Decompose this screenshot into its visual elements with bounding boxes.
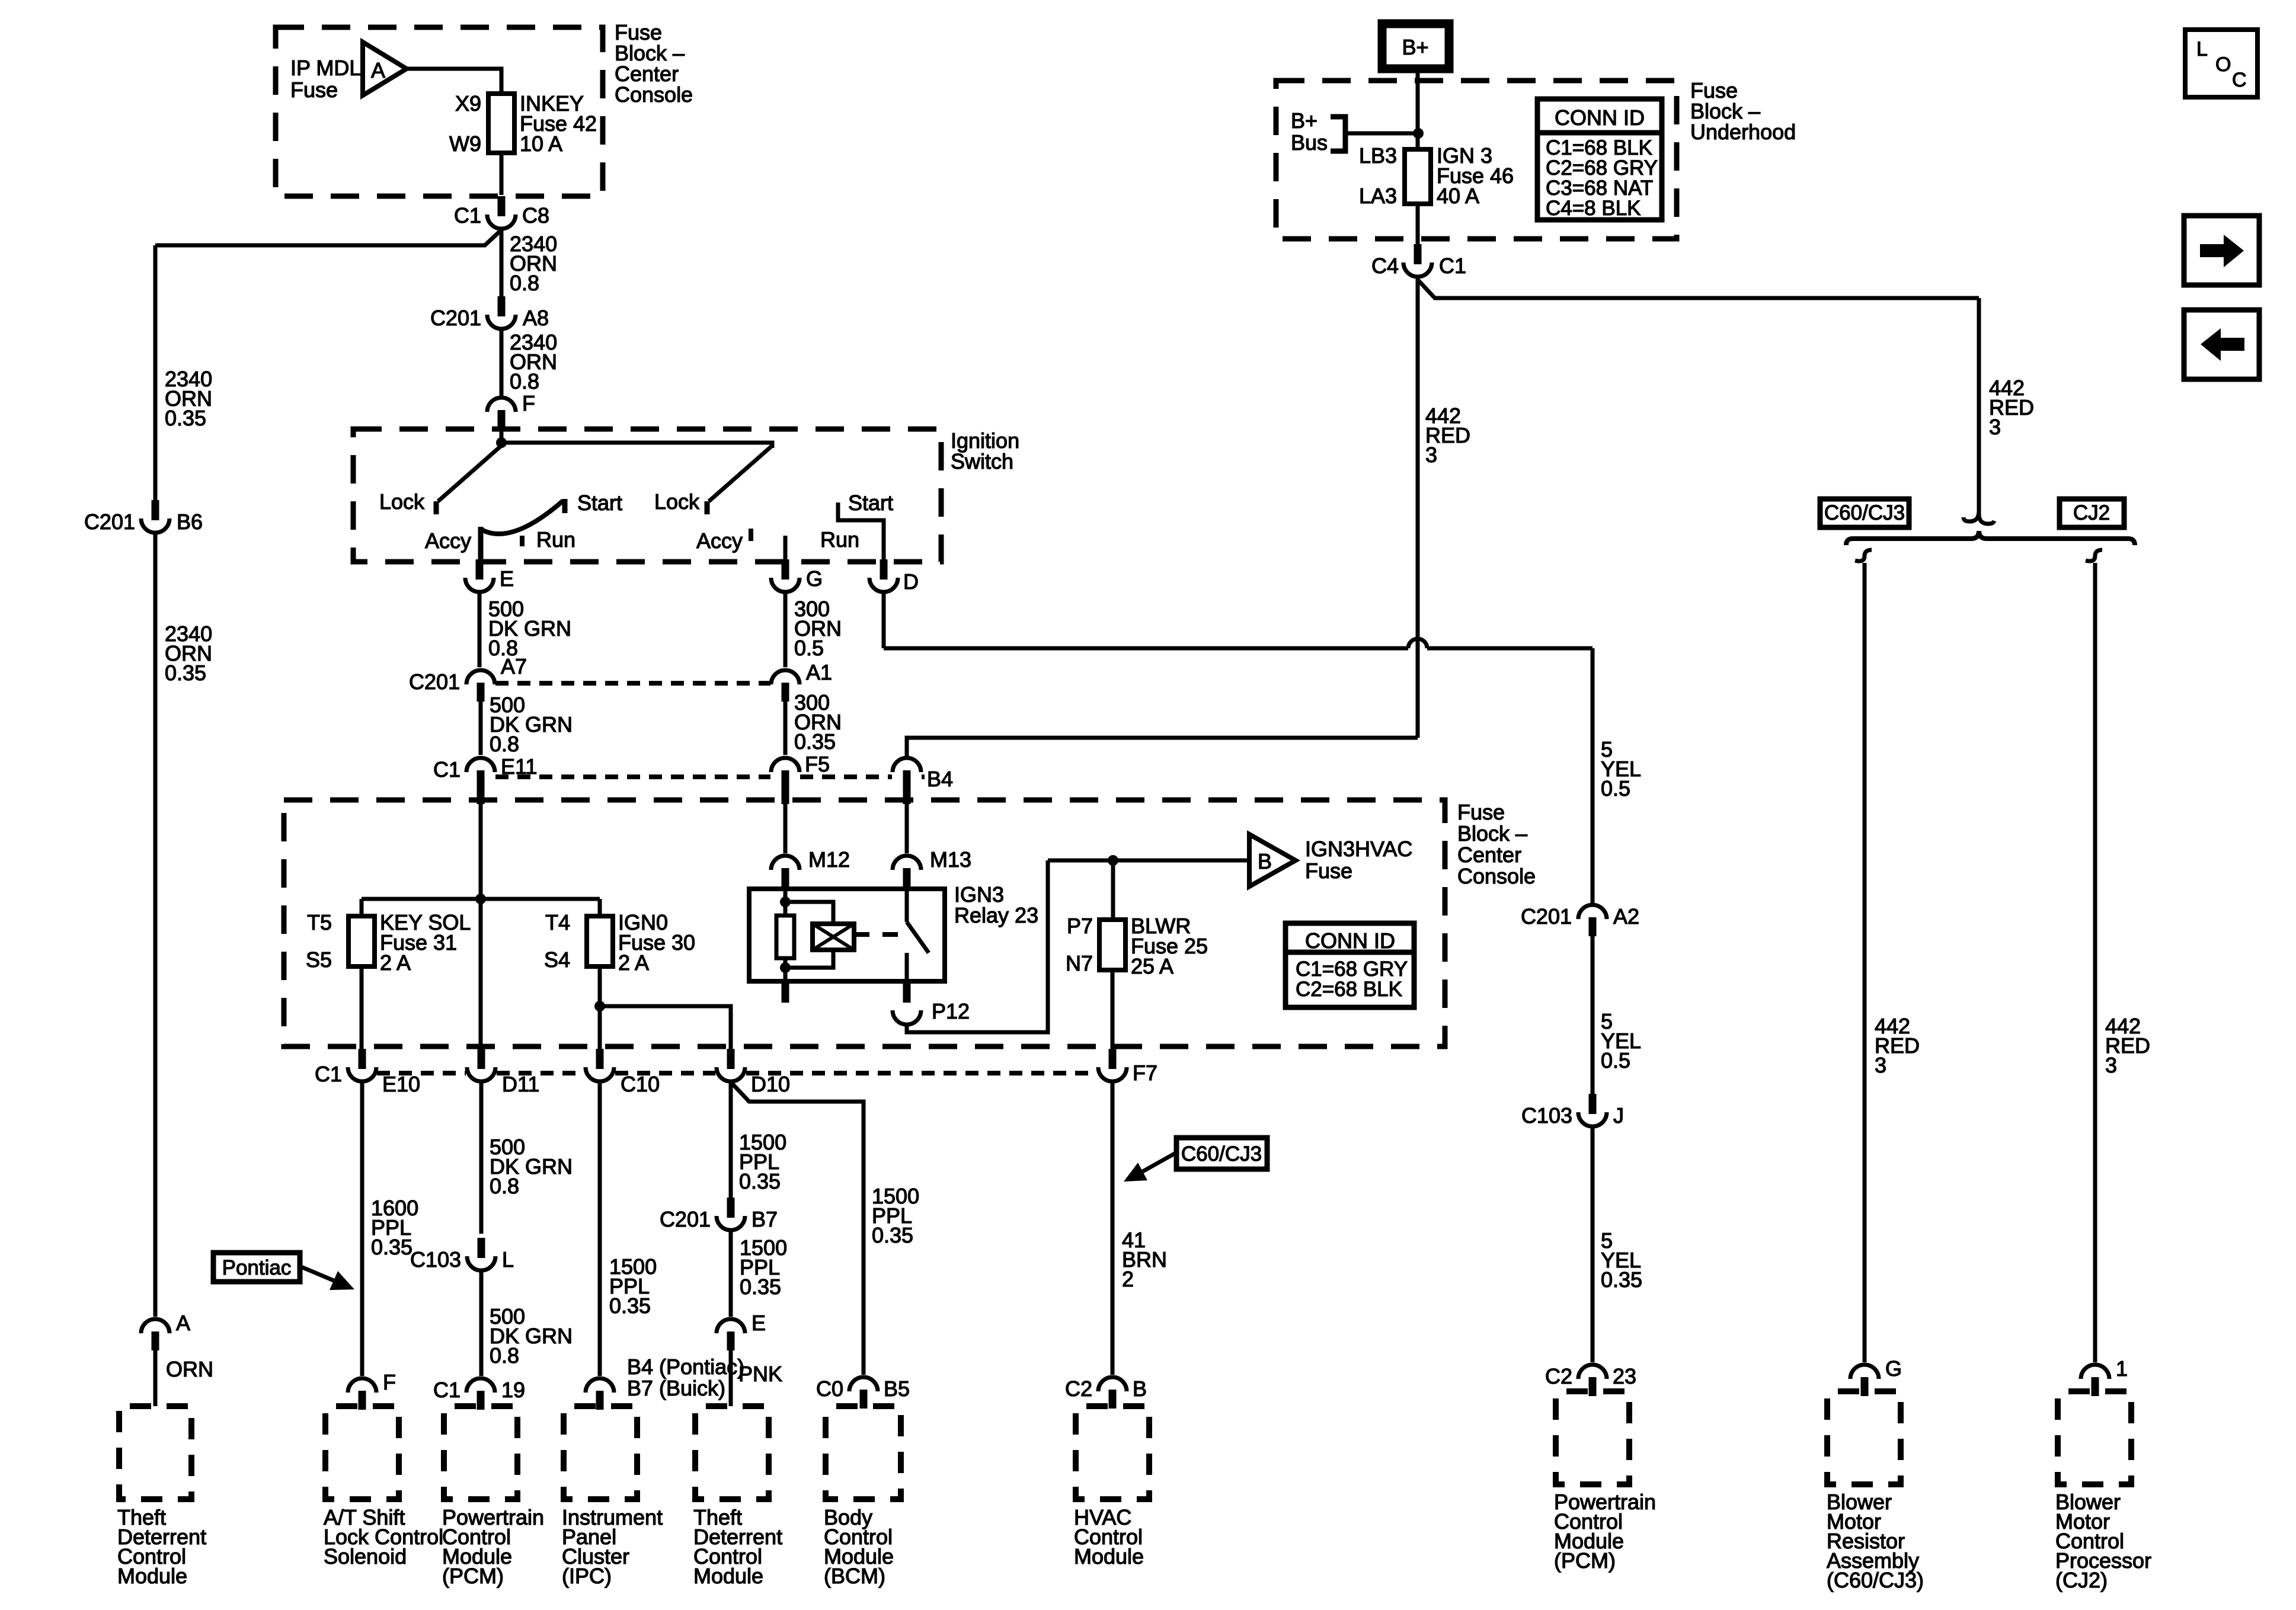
wire D10 to C201-B7 bbox=[729, 1083, 733, 1199]
IP MDL Fuse triangle A bbox=[363, 42, 407, 95]
theft deterrent control module box (right) bbox=[695, 1406, 769, 1499]
wire IGN0 junction to C10 bbox=[598, 1006, 602, 1050]
fuse block - center console (top) dashed box bbox=[276, 27, 603, 196]
label C1 (E11) bbox=[433, 757, 461, 782]
wire IGN3 fuse to C4/C1 bbox=[1416, 204, 1420, 244]
HVAC control module box bbox=[1076, 1406, 1149, 1499]
wire B+ bus to junction bbox=[1345, 132, 1418, 136]
svg-text:Accy: Accy bbox=[425, 529, 471, 553]
connector M13 bbox=[893, 856, 921, 887]
label Powertrain Control Module (PCM) right bbox=[1554, 1490, 1656, 1573]
svg-text:A7: A7 bbox=[501, 654, 527, 678]
label A8 bbox=[523, 306, 549, 330]
connector C201/A8 bbox=[487, 296, 516, 329]
junction B+ bus bbox=[1413, 128, 1424, 139]
dotted connector line row3 bbox=[377, 1071, 466, 1076]
dotted connector line C201 A7-A1 bbox=[495, 681, 770, 686]
svg-text:0.8: 0.8 bbox=[490, 1343, 519, 1368]
Lock terminal 1 bbox=[434, 501, 439, 514]
fuse F42 INKEY bbox=[488, 94, 514, 153]
connector D bbox=[869, 559, 898, 592]
wire IGN0 branch to D10 bbox=[600, 1006, 731, 1050]
svg-text:L: L bbox=[502, 1247, 514, 1272]
wire label 41 BRN 2 bbox=[1122, 1228, 1167, 1291]
label Start 2 bbox=[848, 491, 893, 515]
label M12 bbox=[808, 847, 850, 872]
svg-text:B: B bbox=[1258, 849, 1272, 873]
label KEY SOL Fuse 31 2 A bbox=[380, 910, 471, 975]
wire label 1500 PPL 0.35 (IPC) bbox=[609, 1254, 657, 1318]
svg-text:C2: C2 bbox=[1065, 1377, 1092, 1401]
wire label 1500 PPL 0.35 (BCM) bbox=[872, 1184, 919, 1247]
label HVAC Control Module bbox=[1074, 1505, 1144, 1569]
svg-text:C4=8 BLK: C4=8 BLK bbox=[1546, 197, 1641, 220]
Accy terminal 2 tick bbox=[749, 529, 753, 541]
junction fuse feed bbox=[475, 894, 486, 904]
label F (connector) bbox=[522, 391, 535, 415]
svg-text:G: G bbox=[1885, 1356, 1902, 1381]
wire E to C201-A7 bbox=[478, 594, 482, 667]
svg-text:CJ2: CJ2 bbox=[2073, 501, 2110, 524]
connector G (blower resistor) bbox=[1850, 1365, 1879, 1396]
label T5 bbox=[307, 910, 332, 934]
svg-text:0.8: 0.8 bbox=[510, 369, 539, 393]
svg-text:C1: C1 bbox=[454, 203, 481, 228]
svg-text:G: G bbox=[806, 566, 823, 591]
label C2 (PCM) bbox=[1545, 1364, 1572, 1388]
svg-text:(BCM): (BCM) bbox=[824, 1564, 885, 1588]
svg-text:Module: Module bbox=[1074, 1544, 1144, 1569]
label T4 bbox=[545, 910, 570, 934]
fuse F46 IGN 3 bbox=[1405, 149, 1431, 204]
arrow right box bbox=[2184, 216, 2259, 285]
label Theft Deterrent Control Module (right) bbox=[693, 1505, 782, 1588]
label P7 bbox=[1067, 914, 1093, 938]
F5 stub extension bbox=[782, 788, 789, 804]
Lock terminal 2 bbox=[705, 501, 710, 514]
svg-text:F: F bbox=[522, 391, 535, 415]
connector D10 bbox=[717, 1049, 745, 1081]
rotation arc Accy-Run-Start with arrow bbox=[481, 499, 565, 534]
svg-text:C201: C201 bbox=[430, 306, 481, 330]
connector C0/B5 bbox=[849, 1377, 878, 1409]
label S5 bbox=[306, 948, 332, 972]
wire F into ignition switch box bbox=[500, 429, 504, 443]
svg-text:C: C bbox=[2232, 69, 2247, 91]
svg-text:B4 (Pontiac): B4 (Pontiac) bbox=[627, 1355, 744, 1379]
wire B4 to M13 bbox=[905, 789, 909, 853]
instrument panel cluster box bbox=[564, 1406, 637, 1499]
wire label 1500 PPL 0.35 (theft lower) bbox=[740, 1235, 787, 1299]
svg-text:N7: N7 bbox=[1066, 951, 1093, 975]
wire label 5 YEL 0.35 bbox=[1601, 1228, 1642, 1292]
wire label 442 RED 3 (far right) bbox=[1989, 376, 2034, 439]
svg-text:Fuse: Fuse bbox=[1305, 859, 1352, 883]
label A7 bbox=[501, 654, 527, 678]
label 19 bbox=[501, 1378, 525, 1402]
svg-text:B5: B5 bbox=[884, 1377, 910, 1401]
svg-text:T5: T5 bbox=[307, 910, 332, 934]
svg-text:S5: S5 bbox=[306, 948, 332, 972]
svg-text:E: E bbox=[500, 566, 514, 591]
svg-text:W9: W9 bbox=[449, 132, 481, 156]
connector C201/A7 bbox=[466, 670, 495, 702]
relay left leg to box bottom bbox=[784, 958, 788, 981]
label 1 (blower) bbox=[2116, 1356, 2128, 1381]
label Lock 1 bbox=[379, 489, 425, 514]
relay resistor bottom junction bbox=[780, 962, 791, 973]
label B (HVAC) bbox=[1133, 1377, 1147, 1401]
wire label 500 DK GRN 0.8 (below A7) bbox=[490, 693, 573, 756]
wire BLWR fuse to F7 bbox=[1111, 970, 1115, 1050]
wire junction to BLWR fuse bbox=[1111, 860, 1115, 922]
fuse block - underhood dashed box bbox=[1276, 81, 1677, 239]
svg-text:2 A: 2 A bbox=[618, 950, 649, 975]
svg-text:19: 19 bbox=[501, 1378, 525, 1402]
label C103 (J) bbox=[1521, 1103, 1572, 1128]
label Fuse Block - Center Console (top) bbox=[615, 20, 693, 107]
label Instrument Panel Cluster (IPC) bbox=[562, 1505, 663, 1588]
relay switch blade bbox=[907, 922, 929, 953]
bus wire to fuses bbox=[362, 897, 600, 901]
label Lock 2 bbox=[654, 489, 700, 514]
connector C201/B6 bbox=[141, 500, 170, 533]
wire C10 to B4/B7 bbox=[598, 1083, 602, 1376]
LOC reference box bbox=[2185, 30, 2257, 97]
label C0 bbox=[816, 1377, 843, 1401]
svg-text:C10: C10 bbox=[621, 1072, 660, 1096]
label C103 (L) bbox=[410, 1247, 461, 1272]
connector B4/B7 (IPC) bbox=[586, 1378, 614, 1410]
wire label 442 RED 3 (blower resistor) bbox=[1875, 1014, 1920, 1077]
IGN3HVAC Fuse triangle B bbox=[1249, 834, 1296, 886]
svg-text:(C60/CJ3): (C60/CJ3) bbox=[1827, 1568, 1924, 1592]
label L bbox=[502, 1247, 514, 1272]
connector C201/B7 (theft) bbox=[717, 1198, 745, 1230]
wire label PNK bbox=[738, 1362, 782, 1386]
label LB3 bbox=[1359, 143, 1397, 168]
label F (solenoid) bbox=[383, 1370, 396, 1394]
svg-text:0.35: 0.35 bbox=[740, 1275, 781, 1299]
label E11 bbox=[501, 754, 537, 779]
svg-text:0.35: 0.35 bbox=[1601, 1267, 1642, 1292]
connector D11 bbox=[467, 1049, 495, 1081]
svg-text:CONN ID: CONN ID bbox=[1555, 105, 1645, 130]
wire D10 branch to BCM (diagonal) bbox=[731, 1082, 864, 1375]
CONN ID table (center console) bbox=[1285, 923, 1414, 1007]
label D10 bbox=[751, 1072, 790, 1096]
label F5 bbox=[805, 752, 830, 776]
svg-text:F: F bbox=[383, 1370, 396, 1394]
svg-text:3: 3 bbox=[1425, 443, 1437, 467]
svg-text:Start: Start bbox=[577, 491, 622, 515]
svg-text:0.8: 0.8 bbox=[510, 271, 539, 295]
powertrain control module (PCM) box right bbox=[1556, 1391, 1629, 1484]
CJ2 tag box (top) bbox=[2060, 499, 2124, 527]
connector C10 bbox=[586, 1049, 614, 1081]
label B4 (Pontiac) B7 (Buick) bbox=[627, 1355, 744, 1400]
label Blower Motor Control Processor (CJ2) bbox=[2055, 1490, 2151, 1592]
svg-text:C1: C1 bbox=[315, 1062, 342, 1086]
svg-text:Block –: Block – bbox=[1457, 821, 1527, 846]
IGN3HVAC feed wire bbox=[1048, 859, 1249, 863]
label Run 1 bbox=[536, 527, 575, 552]
relay left leg stub below box bbox=[782, 981, 789, 1003]
wire E11 to junction bbox=[479, 789, 483, 899]
theft deterrent control module box (left) bbox=[119, 1406, 191, 1499]
label 23 bbox=[1613, 1364, 1636, 1388]
svg-text:B+: B+ bbox=[1291, 108, 1318, 133]
label IGN0 Fuse 30 2 A bbox=[618, 910, 695, 975]
svg-text:Solenoid: Solenoid bbox=[324, 1544, 407, 1569]
label Blower Motor Resistor Assembly (C60/CJ3) bbox=[1827, 1490, 1924, 1592]
svg-text:C201: C201 bbox=[84, 510, 135, 534]
wire down to KEY SOL fuse bbox=[360, 899, 364, 916]
wire label ORN bbox=[166, 1357, 213, 1381]
wire B7 to E bbox=[729, 1232, 733, 1317]
label C201 (B7 theft) bbox=[660, 1207, 711, 1231]
Pontiac arrow bbox=[300, 1266, 354, 1290]
svg-text:A: A bbox=[176, 1311, 190, 1335]
wire Accy1 to connector E bbox=[478, 527, 484, 562]
wire label 300 ORN 0.35 bbox=[794, 690, 842, 754]
svg-text:C60/CJ3: C60/CJ3 bbox=[1824, 501, 1905, 524]
wire F into solenoid box bbox=[360, 1406, 364, 1410]
svg-text:0.35: 0.35 bbox=[165, 406, 206, 430]
wire left branch down to C201-B6 bbox=[154, 245, 158, 501]
svg-text:LA3: LA3 bbox=[1359, 184, 1397, 208]
wire J to C2-23 bbox=[1591, 1128, 1595, 1362]
svg-text:C103: C103 bbox=[410, 1247, 461, 1272]
svg-text:E10: E10 bbox=[382, 1072, 420, 1096]
label C2 (HVAC) bbox=[1065, 1377, 1092, 1401]
relay coil (box with X) bbox=[813, 924, 854, 950]
svg-text:C1: C1 bbox=[433, 757, 461, 782]
wire A into theft module box bbox=[154, 1350, 158, 1406]
label M13 bbox=[930, 847, 971, 872]
label A1 bbox=[806, 660, 832, 684]
fuse F25 BLWR bbox=[1099, 920, 1125, 970]
svg-text:23: 23 bbox=[1613, 1364, 1636, 1388]
svg-text:J: J bbox=[1613, 1103, 1624, 1128]
Run terminal 1 tick bbox=[520, 536, 525, 546]
fuse F31 KEY SOL bbox=[348, 916, 375, 966]
wire M12 column from center bbox=[479, 899, 483, 1050]
connector F5 bbox=[771, 758, 800, 789]
wire E10 to F connector bbox=[360, 1083, 364, 1376]
svg-text:Start: Start bbox=[848, 491, 893, 515]
B4 stub extension bbox=[903, 788, 911, 804]
wire hook blower control bbox=[2086, 550, 2102, 561]
wire label 5 YEL 0.5 (upper) bbox=[1601, 737, 1641, 801]
relay resistor bbox=[776, 916, 794, 958]
label E (theft) bbox=[752, 1311, 766, 1335]
connector C103/L bbox=[467, 1238, 495, 1270]
relay wire M12 to resistor bbox=[784, 889, 788, 916]
svg-text:3: 3 bbox=[2105, 1053, 2117, 1077]
wire D11 to C103-L bbox=[479, 1083, 484, 1234]
svg-text:Fuse: Fuse bbox=[290, 78, 338, 102]
blower motor resistor assembly box bbox=[1827, 1391, 1901, 1484]
wire B6 down to connector A bbox=[154, 534, 158, 1317]
label E (connector) bbox=[500, 566, 514, 591]
svg-text:25 A: 25 A bbox=[1131, 954, 1173, 978]
svg-text:0.8: 0.8 bbox=[490, 1174, 519, 1198]
connector F (ignition switch) bbox=[487, 398, 516, 429]
label D (connector) bbox=[903, 569, 919, 594]
svg-text:10 A: 10 A bbox=[520, 132, 562, 156]
C60/CJ3 arrow bbox=[1124, 1153, 1176, 1182]
relay coil to switch dashed link bbox=[854, 932, 907, 937]
connector 1 (blower control) bbox=[2081, 1365, 2109, 1396]
wire KEY SOL fuse to E10 bbox=[360, 966, 364, 1050]
svg-text:Lock: Lock bbox=[654, 489, 700, 514]
wire label 442 RED 3 (blower control) bbox=[2105, 1014, 2150, 1077]
label Fuse Block - Center Console (big) bbox=[1457, 800, 1536, 888]
svg-text:M12: M12 bbox=[808, 847, 850, 872]
label Accy 1 bbox=[425, 529, 471, 553]
wire triangle A to INKEY fuse bbox=[407, 69, 501, 94]
svg-text:M13: M13 bbox=[930, 847, 971, 872]
svg-text:C4: C4 bbox=[1371, 254, 1399, 278]
wire branch to theft deterrent (diagonal + horizontal) bbox=[155, 230, 501, 245]
svg-text:C201: C201 bbox=[409, 670, 460, 694]
svg-text:2: 2 bbox=[1122, 1267, 1134, 1291]
svg-text:Center: Center bbox=[1457, 843, 1521, 867]
wire IGN0 fuse to junction bbox=[598, 966, 602, 1006]
connector C1/C8 bbox=[487, 196, 516, 229]
wire hook blower resistor bbox=[1855, 550, 1872, 561]
label C201 (B6) bbox=[84, 510, 135, 534]
horizontal wire D to right (left of hop) bbox=[884, 646, 1408, 651]
svg-text:C2=68 BLK: C2=68 BLK bbox=[1296, 978, 1402, 1001]
B+ Bus bracket bbox=[1331, 117, 1345, 151]
wire label 5 YEL 0.5 (mid) bbox=[1601, 1009, 1641, 1073]
wire label 442 RED 3 (main) bbox=[1425, 404, 1470, 467]
svg-text:C201: C201 bbox=[1521, 904, 1572, 929]
svg-text:C8: C8 bbox=[522, 203, 549, 228]
svg-text:B7 (Buick): B7 (Buick) bbox=[627, 1376, 725, 1400]
label IGN3 Relay 23 bbox=[954, 882, 1038, 927]
label Body Control Module (BCM) bbox=[824, 1505, 894, 1588]
label C1 (19) bbox=[433, 1378, 461, 1402]
IGN3 relay 23 box bbox=[749, 889, 945, 981]
svg-text:A1: A1 bbox=[806, 660, 832, 684]
wire ignition feed to switch 2 bbox=[501, 443, 772, 448]
svg-text:Pontiac: Pontiac bbox=[222, 1256, 292, 1279]
wire Run2 to connector G bbox=[784, 536, 788, 562]
wire blower resistor column bbox=[1863, 563, 1867, 1362]
svg-text:40 A: 40 A bbox=[1437, 184, 1479, 208]
svg-text:(IPC): (IPC) bbox=[562, 1564, 612, 1588]
wire label 300 ORN 0.5 bbox=[794, 597, 842, 660]
relay coil feed junction top bbox=[780, 897, 791, 907]
wire label 2340 ORN 0.35 (upper left) bbox=[165, 367, 212, 430]
svg-text:Switch: Switch bbox=[951, 449, 1013, 473]
wire blower control column bbox=[2093, 563, 2097, 1362]
wire end hook above brace bbox=[1964, 511, 1994, 524]
wire label 2340 ORN 0.35 (lower left) bbox=[165, 622, 212, 685]
svg-text:0.5: 0.5 bbox=[794, 636, 824, 660]
label C1 (underhood) bbox=[1439, 254, 1466, 278]
C60/CJ3 tag box (HVAC) bbox=[1176, 1138, 1267, 1169]
wire A8 to F bbox=[500, 331, 504, 396]
label B+ Bus bbox=[1291, 108, 1328, 155]
label E10 bbox=[382, 1072, 420, 1096]
relay switch fixed contact top bbox=[905, 889, 909, 922]
svg-text:C201: C201 bbox=[660, 1207, 711, 1231]
wire C4/C1 down main 442 RED bbox=[1416, 279, 1420, 738]
svg-text:ORN: ORN bbox=[166, 1357, 213, 1381]
label B7 (theft) bbox=[752, 1207, 778, 1231]
label IGN 3 Fuse 46 40 A bbox=[1437, 143, 1514, 208]
svg-text:3: 3 bbox=[1875, 1053, 1886, 1077]
junction IGN0 branch bbox=[594, 1001, 605, 1012]
connector C1/19 bbox=[466, 1378, 495, 1410]
svg-text:0.35: 0.35 bbox=[794, 729, 836, 754]
svg-text:Lock: Lock bbox=[379, 489, 425, 514]
svg-text:Underhood: Underhood bbox=[1690, 120, 1796, 144]
wire label 500 DK GRN 0.8 (PCM upper) bbox=[490, 1135, 573, 1198]
label IP MDL Fuse bbox=[290, 56, 361, 102]
svg-text:C1: C1 bbox=[1439, 254, 1466, 278]
svg-text:D11: D11 bbox=[502, 1072, 539, 1096]
label P12 bbox=[932, 999, 970, 1023]
connector G bbox=[771, 559, 800, 592]
relay coil bottom wire bbox=[785, 950, 833, 968]
wire A7 to C1-E11 bbox=[479, 702, 483, 755]
arrow left box bbox=[2184, 310, 2259, 379]
connector C103/J bbox=[1578, 1094, 1607, 1126]
svg-text:Console: Console bbox=[615, 82, 693, 107]
svg-text:C0: C0 bbox=[816, 1377, 843, 1401]
svg-text:0.35: 0.35 bbox=[872, 1223, 913, 1247]
wire label 2340 ORN 0.8 (upper) bbox=[510, 232, 557, 295]
CONN ID rows (center console) bbox=[1296, 958, 1408, 1001]
svg-text:C103: C103 bbox=[1521, 1103, 1572, 1128]
junction ignition feed bbox=[496, 437, 507, 448]
horizontal wire D to right (right of hop) bbox=[1427, 646, 1593, 651]
wire 442 to B4 (left turn) bbox=[907, 738, 1418, 756]
svg-text:Run: Run bbox=[820, 527, 859, 552]
label Theft Deterrent Control Module (left) bbox=[117, 1505, 206, 1588]
connector C4/C1 bbox=[1403, 244, 1432, 277]
svg-text:C60/CJ3: C60/CJ3 bbox=[1181, 1142, 1262, 1166]
svg-text:Fuse: Fuse bbox=[1457, 800, 1505, 824]
wire label 2340 ORN 0.8 (lower) bbox=[510, 330, 557, 393]
wire label 1500 PPL 0.35 (theft upper) bbox=[739, 1130, 786, 1193]
wire D to horizontal run bbox=[882, 594, 886, 648]
svg-text:0.35: 0.35 bbox=[739, 1169, 781, 1193]
label C4 bbox=[1371, 254, 1399, 278]
svg-text:Console: Console bbox=[1457, 864, 1536, 888]
connector B4 bbox=[893, 758, 921, 789]
label J bbox=[1613, 1103, 1624, 1128]
connector C201/A2 bbox=[1578, 905, 1607, 936]
label B5 bbox=[884, 1377, 910, 1401]
wire label 1600 PPL 0.35 bbox=[371, 1196, 418, 1259]
svg-text:B: B bbox=[1133, 1377, 1147, 1401]
connector C2/B bbox=[1098, 1377, 1127, 1409]
label B4 bbox=[927, 767, 953, 791]
ignition switch dashed box bbox=[353, 429, 941, 562]
label N7 bbox=[1066, 951, 1093, 975]
junction BLWR fuse feed bbox=[1108, 855, 1118, 866]
label IGN3HVAC Fuse bbox=[1305, 837, 1412, 883]
label G (connector) bbox=[806, 566, 823, 591]
label C201 (A2) bbox=[1521, 904, 1572, 929]
wire L to C1-19 bbox=[479, 1272, 484, 1376]
